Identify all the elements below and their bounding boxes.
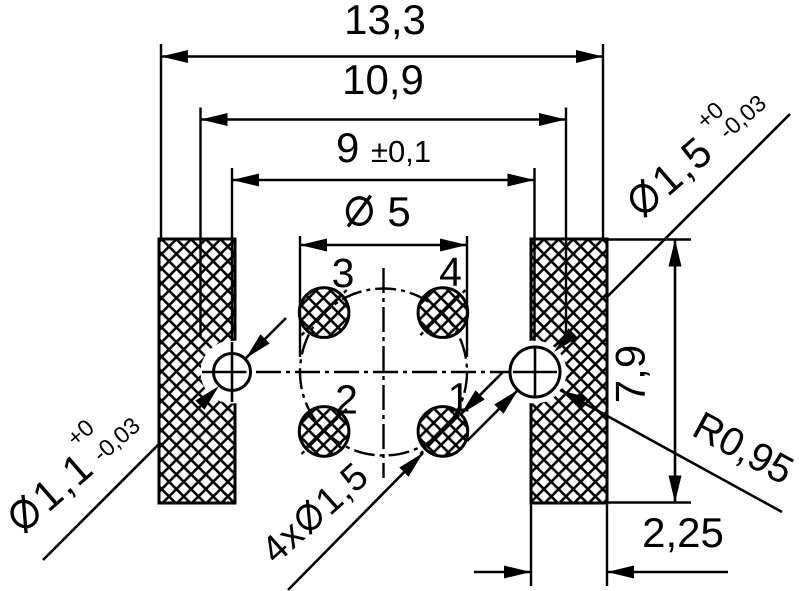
svg-text:±0,1: ±0,1 [371,134,431,169]
svg-text:1: 1 [448,375,471,421]
svg-text:13,3: 13,3 [344,0,426,43]
svg-text:10,9: 10,9 [342,56,424,103]
svg-text:2: 2 [335,377,358,423]
svg-text:4: 4 [439,249,462,295]
svg-text:2,25: 2,25 [642,509,724,556]
svg-text:9: 9 [336,124,359,171]
svg-text:7,9: 7,9 [607,345,654,403]
svg-text:5: 5 [387,188,410,235]
svg-text:3: 3 [332,250,355,296]
